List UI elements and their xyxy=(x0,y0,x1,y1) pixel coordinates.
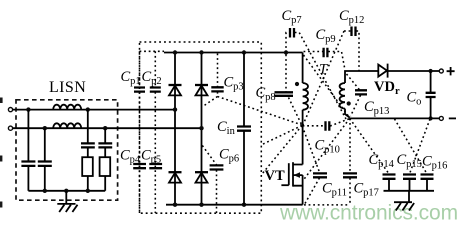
input terminal top xyxy=(8,108,12,112)
wire bridge left leg xyxy=(174,53,176,205)
capacitor Cp14 (dotted lead) xyxy=(350,118,389,173)
capacitor Cin xyxy=(243,53,245,127)
node rail right leg xyxy=(199,50,203,54)
transistor VT (MOSFET) xyxy=(288,163,290,185)
svg-text:Cp4: Cp4 xyxy=(120,148,141,166)
wire DC bottom rail xyxy=(166,204,303,206)
capacitor Cp2 (dotted leads) xyxy=(154,51,156,213)
svg-text:Cp3: Cp3 xyxy=(224,75,244,93)
wire cap2 to bus xyxy=(44,166,46,191)
svg-text:Cp6: Cp6 xyxy=(219,147,239,165)
svg-text:Cp17: Cp17 xyxy=(354,180,379,198)
dotted diagonal secondary node to MOSFET xyxy=(303,118,349,180)
wire DC top rail xyxy=(164,52,303,54)
node AC1 left leg xyxy=(173,107,177,111)
MOSFET body arrow xyxy=(293,172,300,178)
capacitor LISN C3 xyxy=(81,143,95,147)
wire primary riser (rail corner down to coil) xyxy=(302,53,304,84)
ground LISN (chassis) xyxy=(57,204,77,212)
capacitor Cp15 (dotted lead) xyxy=(410,119,431,174)
input terminal bottom xyxy=(8,126,12,130)
capacitor Cp17 (dotted leads) xyxy=(349,118,351,172)
svg-text:Cp12: Cp12 xyxy=(339,8,364,26)
svg-text:VDr: VDr xyxy=(374,79,400,97)
svg-text:Cp5: Cp5 xyxy=(141,148,161,166)
wire dotted link Cp1/Cp2 to rail xyxy=(140,50,165,52)
capacitor Co xyxy=(430,71,432,92)
wire bridge right leg xyxy=(201,53,203,205)
wire RC branch 1 drop xyxy=(87,110,89,143)
node bus ground tap xyxy=(64,189,68,193)
LISN enclosure box xyxy=(16,100,118,200)
rectifier dotted enclosure box xyxy=(140,42,262,213)
transformer primary winding xyxy=(303,83,308,110)
capacitor Cp5 xyxy=(149,164,162,168)
node bottom rail left leg xyxy=(173,203,177,207)
dotted diagonals drain node to enclosure xyxy=(262,126,303,175)
svg-text:VT: VT xyxy=(265,168,285,184)
ground output (chassis) xyxy=(394,202,414,210)
wire AC line 1 (top) xyxy=(13,109,175,111)
svg-text:Cin: Cin xyxy=(217,119,236,137)
node bus cap2 xyxy=(43,189,47,193)
wire cap drop 2 xyxy=(44,128,46,161)
wire R2 to bus xyxy=(104,176,106,191)
wire R1 to bus xyxy=(87,176,89,191)
wire diode to +terminal xyxy=(388,70,440,72)
MOSFET gate lead xyxy=(281,184,288,186)
secondary polarity dot xyxy=(347,101,351,105)
svg-text:Cp8: Cp8 xyxy=(256,85,276,103)
wire primary bottom to MOSFET drain xyxy=(302,110,304,165)
wire ground stem xyxy=(65,191,67,204)
wire cap drop 1 xyxy=(27,110,29,161)
node Co bottom xyxy=(429,116,433,120)
diode VDr xyxy=(378,64,387,78)
transformer secondary winding xyxy=(340,83,345,109)
svg-text:Co: Co xyxy=(407,90,422,108)
svg-text:Cp7: Cp7 xyxy=(282,8,302,26)
capacitor Cp11 (dotted leads) xyxy=(302,126,319,173)
capacitor Cp12 (dotted leads) xyxy=(303,31,351,125)
primary polarity dot xyxy=(295,82,299,86)
wire ground stem output xyxy=(408,191,410,202)
node Co top xyxy=(429,69,433,73)
capacitor Cp6 (dotted leads) xyxy=(202,146,216,165)
capacitor LISN C2 xyxy=(38,162,52,166)
capacitor Cp13 (dotted leads) xyxy=(347,74,360,90)
svg-text:Cp14: Cp14 xyxy=(369,152,395,170)
wire LISN ground bus xyxy=(28,190,105,192)
wire cap1 to bus xyxy=(27,166,29,191)
node rail Cin xyxy=(242,50,246,54)
node bottom rail Cin xyxy=(242,203,246,207)
diode D4 lower-right xyxy=(195,171,208,173)
capacitor Cp4 xyxy=(133,164,146,168)
diode D2 upper-right xyxy=(195,84,208,86)
node bus R1 xyxy=(86,189,90,193)
wire output bottom rail xyxy=(350,117,440,119)
inductor L1 (top line) xyxy=(53,105,81,110)
wire RC branch 2 drop xyxy=(104,128,106,143)
svg-text:Cp11: Cp11 xyxy=(322,180,347,198)
diagonal rail-corner to secondary-bottom xyxy=(304,55,349,117)
left edge crop artifacts xyxy=(0,98,3,208)
wire output ground bus xyxy=(384,190,435,192)
wire secondary bottom to output rail xyxy=(345,109,350,118)
diode D1 upper-left xyxy=(169,84,182,86)
wires Cp14/15/16 to ground bus xyxy=(389,179,427,191)
capacitor LISN C4 xyxy=(98,143,112,147)
node rail left leg xyxy=(173,50,177,54)
capacitor Cp1 (dotted leads) xyxy=(139,51,141,213)
capacitor LISN C1 xyxy=(21,162,35,166)
capacitor Cp8 (dotted leads) xyxy=(285,55,287,92)
resistor LISN R2 xyxy=(100,157,111,176)
node line2/cap drop xyxy=(43,126,47,130)
capacitor Cp7 (dotted leads) xyxy=(286,33,289,53)
inductor L2 (bottom line) xyxy=(53,123,81,128)
node rail Cp7/Cp8 tap xyxy=(284,50,288,54)
capacitor Cp9 (dotted leads) xyxy=(304,51,323,53)
svg-text:Cp10: Cp10 xyxy=(315,138,340,156)
svg-text:Cp13: Cp13 xyxy=(364,99,389,117)
svg-text:Cp15: Cp15 xyxy=(397,152,422,170)
svg-text:Cp16: Cp16 xyxy=(422,154,447,172)
output terminal minus xyxy=(439,116,443,120)
wire cap4 to resistor xyxy=(104,148,106,157)
capacitor Cp10 (dotted leads) xyxy=(303,125,325,127)
wire cap3 to resistor xyxy=(87,148,89,157)
node AC2 right leg xyxy=(199,126,203,130)
svg-text:Cp2: Cp2 xyxy=(142,69,162,87)
output terminal plus xyxy=(439,69,443,73)
node line2/RC branch xyxy=(103,126,107,130)
svg-text:LISN: LISN xyxy=(49,79,86,96)
wire AC line 2 (bottom) xyxy=(13,127,202,129)
node line1/cap drop xyxy=(26,107,30,111)
capacitor Cp16 (dotted lead) xyxy=(395,119,428,174)
node line1/RC branch xyxy=(86,107,90,111)
diode D3 lower-left xyxy=(169,171,182,173)
svg-text:www.cntronics.com: www.cntronics.com xyxy=(279,202,458,225)
svg-text:Cp9: Cp9 xyxy=(316,27,336,45)
resistor LISN R1 xyxy=(82,157,93,176)
wire secondary top xyxy=(345,71,378,83)
node bottom rail right leg xyxy=(199,203,203,207)
svg-text:Cp1: Cp1 xyxy=(121,69,141,87)
capacitor Cp3 (dotted leads) xyxy=(217,54,219,87)
